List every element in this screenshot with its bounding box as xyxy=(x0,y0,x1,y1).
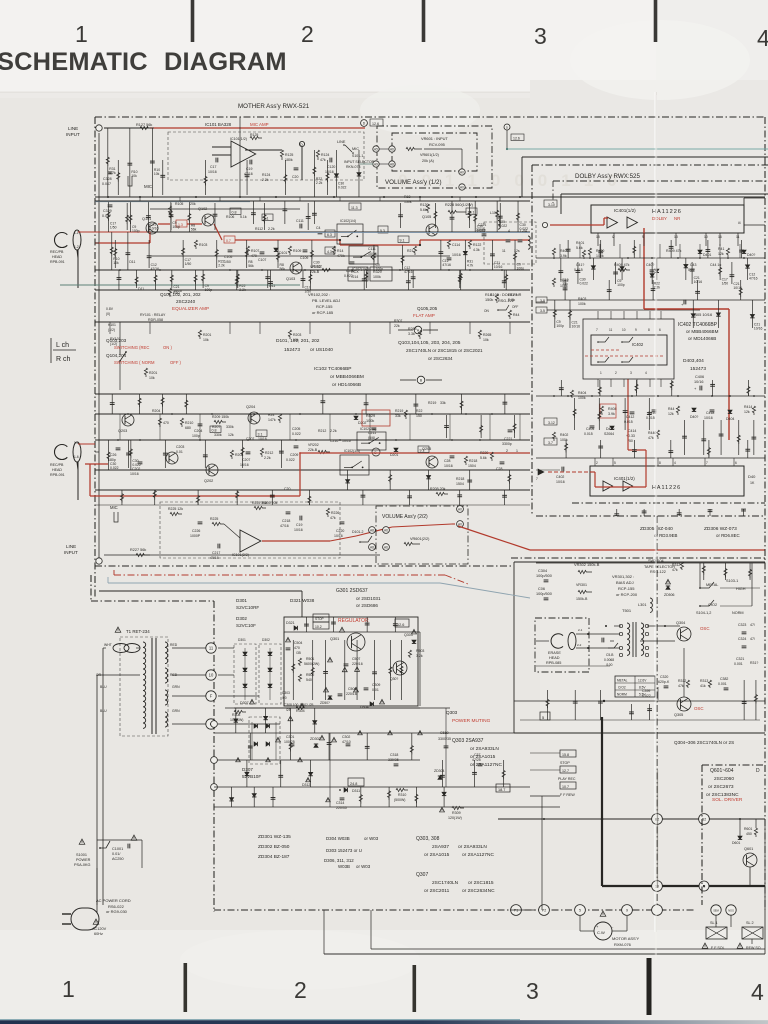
svg-text:R109: R109 xyxy=(293,249,301,253)
svg-text:T1 RET-234: T1 RET-234 xyxy=(126,629,150,634)
svg-text:10/16: 10/16 xyxy=(694,280,703,284)
svg-text:1-6: 1-6 xyxy=(74,455,79,459)
svg-text:R265: R265 xyxy=(483,333,491,337)
svg-text:R106: R106 xyxy=(226,215,234,219)
svg-text:ZD301 WZ-135: ZD301 WZ-135 xyxy=(258,834,291,840)
svg-text:RPB-091: RPB-091 xyxy=(50,260,65,264)
svg-text:330k: 330k xyxy=(226,425,234,429)
svg-text:10/16: 10/16 xyxy=(694,380,704,384)
svg-text:33k: 33k xyxy=(440,401,446,405)
svg-text:11: 11 xyxy=(502,249,506,253)
svg-text:C412: C412 xyxy=(626,415,634,419)
svg-text:0.047: 0.047 xyxy=(102,182,111,186)
svg-text:C28: C28 xyxy=(496,467,502,471)
svg-text:C309: C309 xyxy=(372,683,380,687)
svg-text:R309: R309 xyxy=(452,811,461,815)
svg-text:ON: ON xyxy=(484,309,489,313)
svg-text:10: 10 xyxy=(622,328,626,332)
svg-text:D304 W03B: D304 W03B xyxy=(326,836,350,841)
svg-text:7: 7 xyxy=(706,461,708,465)
svg-text:SEM: SEM xyxy=(713,909,719,913)
svg-text:0.001: 0.001 xyxy=(734,662,743,666)
svg-text:C323: C323 xyxy=(738,623,746,627)
svg-text:3: 3 xyxy=(534,23,547,49)
svg-text:or 2SD686: or 2SD686 xyxy=(356,603,378,608)
svg-text:GRN: GRN xyxy=(172,709,180,713)
svg-text:Q202: Q202 xyxy=(204,479,213,483)
svg-text:Q105,205: Q105,205 xyxy=(417,306,438,311)
svg-text:(0): (0) xyxy=(106,312,110,316)
svg-text:12.6: 12.6 xyxy=(372,122,379,126)
svg-text:R225 20k: R225 20k xyxy=(252,501,267,505)
svg-text:100k: 100k xyxy=(560,438,568,442)
svg-text:6: 6 xyxy=(735,461,737,465)
svg-text:ZD302 BZ-050: ZD302 BZ-050 xyxy=(258,844,290,850)
svg-text:100p: 100p xyxy=(375,267,383,271)
svg-text:R31?: R31? xyxy=(750,661,758,665)
svg-text:Q105: Q105 xyxy=(422,215,431,219)
svg-text:A8: A8 xyxy=(390,163,394,167)
svg-text:HIGH: HIGH xyxy=(736,587,746,591)
svg-text:R220: R220 xyxy=(480,451,488,455)
svg-text:SL 2: SL 2 xyxy=(746,921,754,925)
svg-text:NR: NR xyxy=(674,216,680,221)
svg-text:10/16: 10/16 xyxy=(733,286,742,290)
svg-text:0.022: 0.022 xyxy=(313,264,322,268)
svg-text:220/35: 220/35 xyxy=(336,806,347,810)
svg-text:100p/500: 100p/500 xyxy=(536,574,552,578)
svg-text:REGULATOR: REGULATOR xyxy=(338,618,369,624)
svg-text:4: 4 xyxy=(674,461,676,465)
svg-text:IC102(2/4): IC102(2/4) xyxy=(360,427,376,431)
svg-text:47/16: 47/16 xyxy=(151,267,160,271)
svg-text:10/16: 10/16 xyxy=(150,227,159,231)
svg-text:D601: D601 xyxy=(732,841,740,845)
svg-text:C329: C329 xyxy=(103,209,112,213)
svg-text:100p: 100p xyxy=(205,288,213,292)
svg-text:620p-K: 620p-K xyxy=(658,680,670,684)
svg-text:11.3: 11.3 xyxy=(351,206,358,210)
svg-text:RCV-095: RCV-095 xyxy=(429,142,445,147)
svg-text:REW SO: REW SO xyxy=(746,946,761,950)
svg-text:22k-B: 22k-B xyxy=(310,270,320,274)
svg-text:P1: P1 xyxy=(514,909,518,913)
svg-text:D11: D11 xyxy=(269,284,275,288)
svg-text:IC101(1/2): IC101(1/2) xyxy=(230,137,247,141)
svg-text:12k: 12k xyxy=(668,412,674,416)
svg-text:680: 680 xyxy=(185,426,191,430)
svg-text:D401: D401 xyxy=(703,253,711,257)
svg-text:AC120V: AC120V xyxy=(92,927,107,931)
svg-text:0.001: 0.001 xyxy=(718,682,727,686)
svg-text:R408: R408 xyxy=(608,407,617,411)
svg-text:1504: 1504 xyxy=(456,482,464,486)
svg-text:R218: R218 xyxy=(469,459,477,463)
svg-text:RPB-085: RPB-085 xyxy=(546,661,561,665)
svg-text:R44: R44 xyxy=(513,313,519,317)
svg-text:52VB10F: 52VB10F xyxy=(242,774,261,779)
svg-text:100k: 100k xyxy=(578,396,586,400)
svg-text:or 2SD1031: or 2SD1031 xyxy=(356,596,381,601)
svg-text:450: 450 xyxy=(746,832,752,836)
svg-text:C304: C304 xyxy=(538,569,547,573)
svg-text:R201: R201 xyxy=(149,371,157,375)
svg-text:4.7k: 4.7k xyxy=(467,263,474,267)
svg-text:C107: C107 xyxy=(258,258,266,262)
svg-text:10/16: 10/16 xyxy=(571,325,580,329)
svg-text:R402: R402 xyxy=(560,433,568,437)
svg-text:BLU: BLU xyxy=(100,685,107,689)
svg-text:REC/PB: REC/PB xyxy=(50,250,64,254)
svg-text:R125: R125 xyxy=(250,133,258,137)
svg-text:C402: C402 xyxy=(556,475,564,479)
svg-text:VR102,202 :: VR102,202 : xyxy=(308,292,330,297)
svg-text:22k-B: 22k-B xyxy=(308,448,318,452)
svg-text:AC POWER CORD: AC POWER CORD xyxy=(96,898,131,903)
svg-text:5: 5 xyxy=(614,461,616,465)
svg-text:Q307: Q307 xyxy=(416,872,428,878)
svg-text:Q104,204: Q104,204 xyxy=(106,353,127,358)
svg-text:Q303 2SA937: Q303 2SA937 xyxy=(452,738,484,744)
svg-text:R414: R414 xyxy=(744,405,752,409)
svg-text:C43: C43 xyxy=(690,263,696,267)
svg-text:R124: R124 xyxy=(262,173,270,177)
svg-text:0.015: 0.015 xyxy=(646,416,655,420)
svg-text:R205 20k: R205 20k xyxy=(430,487,446,491)
svg-text:150k-B: 150k-B xyxy=(576,597,588,601)
svg-text:or 2SA1015: or 2SA1015 xyxy=(424,852,450,858)
svg-text:10/16: 10/16 xyxy=(444,464,453,468)
svg-text:10k: 10k xyxy=(154,172,160,176)
svg-text:R225: R225 xyxy=(210,517,218,521)
svg-text:C217: C217 xyxy=(212,551,220,555)
svg-text:3.2k: 3.2k xyxy=(416,654,423,658)
svg-text:100p: 100p xyxy=(172,225,180,229)
svg-text:Q601: Q601 xyxy=(744,847,753,851)
svg-text:A6: A6 xyxy=(384,529,388,533)
svg-text:R21: R21 xyxy=(407,249,413,253)
svg-text:IC102(1/4): IC102(1/4) xyxy=(340,219,356,223)
svg-text:D11: D11 xyxy=(138,287,144,291)
svg-text:C220: C220 xyxy=(336,529,344,533)
svg-text:2.2k: 2.2k xyxy=(316,181,323,185)
svg-text:R310: R310 xyxy=(398,793,406,797)
svg-text:C414: C414 xyxy=(628,429,636,433)
svg-text:15.8: 15.8 xyxy=(562,753,569,757)
svg-text:47/16: 47/16 xyxy=(749,277,758,281)
svg-text:R201: R201 xyxy=(203,333,211,337)
svg-text:S104-1,2: S104-1,2 xyxy=(696,611,711,615)
svg-text:10/16: 10/16 xyxy=(494,265,503,269)
svg-text:C504: C504 xyxy=(294,641,302,645)
svg-text:C44 1u: C44 1u xyxy=(710,263,721,267)
svg-text:HEAD: HEAD xyxy=(52,468,62,472)
svg-text:ON ): ON ) xyxy=(163,345,172,350)
svg-text:STOP: STOP xyxy=(560,761,570,765)
svg-text:ZD506: ZD506 xyxy=(664,593,675,597)
svg-text:G301 2SD637: G301 2SD637 xyxy=(336,588,368,594)
svg-text:12.6: 12.6 xyxy=(397,623,404,627)
svg-text:IC102 TC4066BP: IC102 TC4066BP xyxy=(314,366,352,372)
svg-text:R22: R22 xyxy=(416,409,422,413)
svg-text:47/: 47/ xyxy=(750,637,755,641)
svg-text:C26: C26 xyxy=(110,453,116,457)
svg-text:100p: 100p xyxy=(192,434,200,438)
svg-text:47k: 47k xyxy=(330,516,336,520)
svg-text:R103: R103 xyxy=(199,243,207,247)
svg-text:SL 1: SL 1 xyxy=(710,921,718,925)
svg-text:470: 470 xyxy=(163,421,169,425)
svg-text:MIC: MIC xyxy=(110,505,118,510)
svg-text:D306, 311, 312: D306, 311, 312 xyxy=(324,858,354,863)
svg-text:R219: R219 xyxy=(395,409,403,413)
svg-text:S2VC10RF: S2VC10RF xyxy=(236,605,259,610)
svg-text:R18: R18 xyxy=(485,293,492,297)
svg-text:20k (A): 20k (A) xyxy=(422,159,434,163)
svg-text:540: 540 xyxy=(306,678,312,682)
svg-text:10/16: 10/16 xyxy=(130,472,139,476)
svg-text:C324: C324 xyxy=(738,637,746,641)
svg-text:A0: A0 xyxy=(460,186,464,190)
svg-text:+0.33: +0.33 xyxy=(626,434,635,438)
svg-text:18.7: 18.7 xyxy=(498,788,505,792)
svg-text:METAL: METAL xyxy=(706,583,718,587)
svg-text:33k: 33k xyxy=(395,414,401,418)
svg-text:5600(2W): 5600(2W) xyxy=(304,662,319,666)
svg-text:100/25: 100/25 xyxy=(284,740,295,744)
svg-text:0.022: 0.022 xyxy=(286,458,295,462)
svg-text:1/50: 1/50 xyxy=(110,226,117,230)
svg-text:3-10: 3-10 xyxy=(548,203,555,207)
svg-text:IC402: IC402 xyxy=(632,342,644,347)
svg-text:WHT: WHT xyxy=(104,643,112,647)
svg-text:HEAD: HEAD xyxy=(549,656,560,660)
svg-text:OSC: OSC xyxy=(700,626,710,631)
svg-text:PLAY REC: PLAY REC xyxy=(558,777,576,781)
svg-text:VR301: VR301 xyxy=(576,583,587,587)
svg-text:C5-B: C5-B xyxy=(606,653,614,657)
svg-text:POWER: POWER xyxy=(76,858,91,862)
svg-text:L ch: L ch xyxy=(56,342,69,349)
svg-text:C203: C203 xyxy=(176,445,184,449)
svg-text:VR302 150k-B: VR302 150k-B xyxy=(574,562,600,567)
svg-text:R203: R203 xyxy=(293,333,301,337)
svg-text:C320: C320 xyxy=(660,675,668,679)
svg-text:R264: R264 xyxy=(408,327,417,331)
svg-text:SWITCHING ( NORM: SWITCHING ( NORM xyxy=(114,360,155,365)
svg-text:VOLUME Ass'y (2/2): VOLUME Ass'y (2/2) xyxy=(382,514,428,520)
svg-text:A0: A0 xyxy=(458,508,462,512)
svg-text:9.1: 9.1 xyxy=(420,448,425,452)
svg-text:NORM: NORM xyxy=(732,611,744,615)
svg-text:10k: 10k xyxy=(203,338,209,342)
svg-text:100k: 100k xyxy=(373,275,381,279)
svg-text:4: 4 xyxy=(751,979,764,1005)
svg-text:10: 10 xyxy=(209,673,214,678)
svg-text:0.022: 0.022 xyxy=(579,282,588,286)
svg-text:Q103: Q103 xyxy=(286,277,295,281)
svg-text:or 2SC2673: or 2SC2673 xyxy=(708,784,734,790)
svg-text:or W03: or W03 xyxy=(356,864,371,869)
svg-text:10/16: 10/16 xyxy=(754,326,763,330)
svg-text:330/35: 330/35 xyxy=(388,758,399,762)
svg-text:3300/35: 3300/35 xyxy=(438,737,451,741)
svg-text:0.01: 0.01 xyxy=(176,450,183,454)
svg-text:C17: C17 xyxy=(210,165,216,169)
svg-text:C19: C19 xyxy=(296,523,302,527)
svg-text:PSA-0KG: PSA-0KG xyxy=(74,863,91,867)
svg-text:MOTHER Ass'y RWX-521: MOTHER Ass'y RWX-521 xyxy=(238,103,310,110)
svg-text:0.8: 0.8 xyxy=(212,428,217,432)
svg-text:5.6k: 5.6k xyxy=(480,456,487,460)
svg-text:R210: R210 xyxy=(185,421,193,425)
svg-text:CrO2: CrO2 xyxy=(618,686,626,690)
svg-text:3: 3 xyxy=(526,978,539,1004)
svg-text:5.6k: 5.6k xyxy=(508,298,515,302)
svg-text:RPB-091: RPB-091 xyxy=(50,473,65,477)
svg-text:R24: R24 xyxy=(268,413,274,417)
svg-text:47k: 47k xyxy=(648,436,654,440)
svg-text:2.2k: 2.2k xyxy=(654,286,661,290)
svg-text:R44: R44 xyxy=(668,407,674,411)
svg-text:C382: C382 xyxy=(720,677,728,681)
svg-text:10/16: 10/16 xyxy=(334,534,343,538)
svg-text:C06: C06 xyxy=(538,587,545,591)
svg-text:R212: R212 xyxy=(318,429,326,433)
svg-text:10k: 10k xyxy=(113,261,119,265)
svg-text:A0: A0 xyxy=(460,171,464,175)
svg-text:R105: R105 xyxy=(175,202,183,206)
svg-text:10.7: 10.7 xyxy=(562,785,569,789)
svg-text:3.1: 3.1 xyxy=(264,216,269,220)
svg-text:P2: P2 xyxy=(542,909,546,913)
svg-text:C207: C207 xyxy=(242,458,250,462)
svg-text:1: 1 xyxy=(62,976,75,1002)
svg-text:24.8: 24.8 xyxy=(350,782,357,786)
svg-text:RCP-155: RCP-155 xyxy=(316,304,333,309)
svg-text:IC401(1/2): IC401(1/2) xyxy=(614,476,635,481)
svg-text:10/16: 10/16 xyxy=(452,253,461,257)
svg-text:IC401(1/2): IC401(1/2) xyxy=(614,208,636,213)
svg-text:152473: 152473 xyxy=(690,366,706,372)
svg-text:DOLBY Ass'y RWX:525: DOLBY Ass'y RWX:525 xyxy=(575,173,640,180)
svg-text:or RG9-030: or RG9-030 xyxy=(106,909,128,914)
svg-text:10/16: 10/16 xyxy=(294,528,303,532)
svg-text:IC101 BA328: IC101 BA328 xyxy=(205,122,232,127)
svg-text:147k: 147k xyxy=(268,418,276,422)
svg-text:ZD302: ZD302 xyxy=(310,737,321,741)
svg-text:47/16: 47/16 xyxy=(442,263,451,267)
svg-text:2: 2 xyxy=(301,21,314,47)
svg-text:R501: R501 xyxy=(306,657,314,661)
svg-text:0.7: 0.7 xyxy=(226,239,231,243)
svg-text:VR301,302 :: VR301,302 : xyxy=(612,574,634,579)
svg-text:180k: 180k xyxy=(285,158,293,162)
svg-text:1/50: 1/50 xyxy=(224,260,231,264)
svg-text:R403: R403 xyxy=(578,297,586,301)
svg-text:C302: C302 xyxy=(342,735,350,739)
svg-text:7: 7 xyxy=(596,328,598,332)
svg-text:(1/2): (1/2) xyxy=(108,328,115,332)
svg-text:R212: R212 xyxy=(265,451,273,455)
svg-text:/100: /100 xyxy=(606,663,613,667)
svg-text:11: 11 xyxy=(609,328,613,332)
svg-text:R112: R112 xyxy=(255,227,263,231)
svg-text:ZD304: ZD304 xyxy=(434,769,445,773)
svg-text:41k: 41k xyxy=(700,684,706,688)
svg-text:R312: R312 xyxy=(678,679,686,683)
svg-text:A6: A6 xyxy=(390,148,394,152)
svg-text:12k: 12k xyxy=(744,410,750,414)
svg-text:C210: C210 xyxy=(330,439,338,443)
svg-text:0.0068: 0.0068 xyxy=(604,658,614,662)
svg-text:CrO2: CrO2 xyxy=(708,603,717,607)
svg-text:8: 8 xyxy=(659,461,661,465)
svg-text:10/16: 10/16 xyxy=(556,480,565,484)
svg-text:FLAT AMP: FLAT AMP xyxy=(413,313,435,318)
svg-text:2: 2 xyxy=(294,977,307,1003)
svg-text:A5: A5 xyxy=(374,148,378,152)
svg-text:R409 47k: R409 47k xyxy=(666,249,682,253)
svg-text:3.1: 3.1 xyxy=(258,432,263,436)
svg-text:i4: i4 xyxy=(738,221,741,225)
svg-text:C406: C406 xyxy=(695,375,704,379)
svg-text:D40?: D40? xyxy=(690,415,698,419)
svg-text:A8: A8 xyxy=(370,529,374,533)
svg-text:F F SOL: F F SOL xyxy=(711,946,725,950)
svg-text:0.022: 0.022 xyxy=(477,229,486,233)
svg-text:PB. LEVEL ADJ: PB. LEVEL ADJ xyxy=(312,298,340,303)
svg-text:or RD6.8EC: or RD6.8EC xyxy=(716,533,740,538)
svg-text:VR601 : INPUT: VR601 : INPUT xyxy=(421,136,448,141)
svg-text:LINE: LINE xyxy=(337,140,346,144)
svg-text:RCP-155: RCP-155 xyxy=(618,586,635,591)
svg-text:D307: D307 xyxy=(240,701,249,705)
svg-text:10k: 10k xyxy=(293,338,299,342)
svg-text:3.9k: 3.9k xyxy=(608,412,615,416)
svg-text:INPUT: INPUT xyxy=(66,132,80,137)
svg-text:47k: 47k xyxy=(320,158,326,162)
svg-text:R312: R312 xyxy=(672,563,680,567)
svg-text:3300p: 3300p xyxy=(502,442,512,446)
svg-text:1000P: 1000P xyxy=(190,534,201,538)
svg-text:METAL: METAL xyxy=(617,679,628,683)
svg-text:12k: 12k xyxy=(718,252,724,256)
svg-text:RXM-076: RXM-076 xyxy=(614,942,632,947)
svg-text:R304: R304 xyxy=(296,709,305,713)
svg-text:/50: /50 xyxy=(628,439,633,443)
svg-text:R226: R226 xyxy=(331,511,339,515)
svg-text:C204: C204 xyxy=(194,429,202,433)
svg-text:C226: C226 xyxy=(192,529,200,533)
svg-text:6: 6 xyxy=(659,328,661,332)
svg-text:D40?: D40? xyxy=(747,253,755,257)
svg-text:VR601(2/2): VR601(2/2) xyxy=(410,537,430,541)
svg-text:1/50: 1/50 xyxy=(304,290,311,294)
svg-text:0.015: 0.015 xyxy=(574,268,583,272)
svg-text:56k: 56k xyxy=(280,267,286,271)
svg-text:RKN-073: RKN-073 xyxy=(346,165,360,169)
svg-text:K101: K101 xyxy=(108,323,116,327)
svg-text:10k: 10k xyxy=(149,376,155,380)
svg-text:INPUT SELECTOR: INPUT SELECTOR xyxy=(344,160,375,164)
svg-text:2SC1740LN or 2SC1815 or 2SC2: 2SC1740LN or 2SC1815 or 2SC2021 xyxy=(406,348,483,353)
svg-text:R219: R219 xyxy=(428,401,436,405)
svg-text:MIC: MIC xyxy=(144,184,152,189)
svg-text:T501: T501 xyxy=(622,608,632,613)
svg-text:0.022: 0.022 xyxy=(132,463,141,467)
svg-text:1/50: 1/50 xyxy=(185,262,192,266)
